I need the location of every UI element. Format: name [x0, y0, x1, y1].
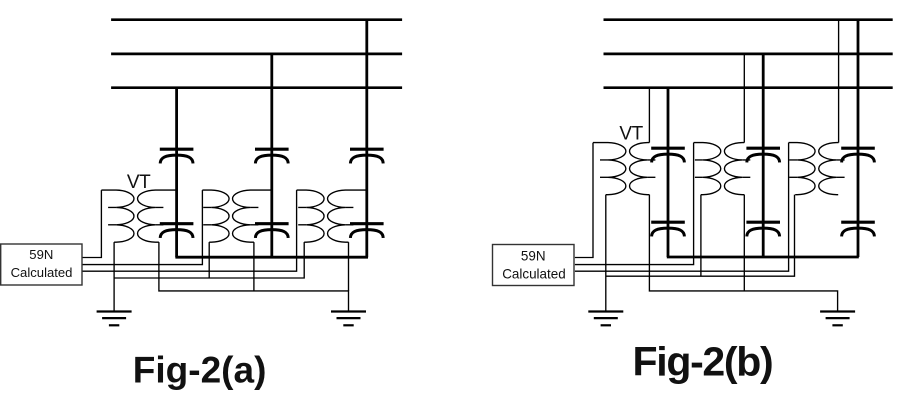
svg-text:Calculated: Calculated	[11, 265, 73, 280]
svg-text:Calculated: Calculated	[502, 266, 566, 281]
svg-text:Fig-2(b): Fig-2(b)	[633, 339, 773, 385]
svg-text:59N: 59N	[29, 247, 53, 262]
svg-text:VT: VT	[619, 124, 643, 145]
svg-text:59N: 59N	[521, 248, 546, 263]
svg-text:VT: VT	[127, 172, 151, 193]
svg-text:Fig-2(a): Fig-2(a)	[133, 350, 267, 391]
